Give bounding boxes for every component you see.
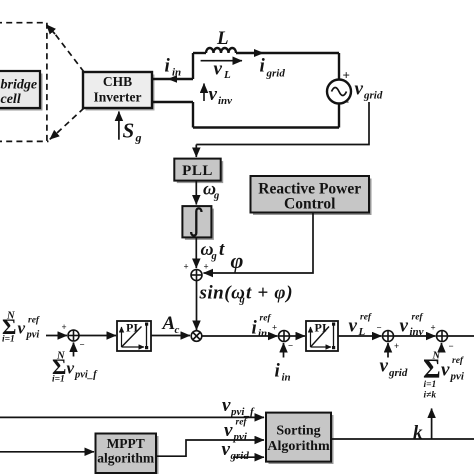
- svg-text:t: t: [219, 239, 225, 260]
- svg-text:i=1: i=1: [52, 375, 65, 385]
- svg-text:L: L: [216, 28, 229, 49]
- svg-text:pvi_f: pvi_f: [74, 370, 98, 381]
- svg-text:grid: grid: [363, 90, 383, 102]
- svg-text:PI: PI: [315, 321, 327, 335]
- svg-text:sin(ω: sin(ω: [199, 283, 246, 304]
- svg-text:ref: ref: [412, 313, 424, 323]
- svg-text:algorithm: algorithm: [97, 451, 155, 466]
- svg-text:inv: inv: [218, 95, 232, 107]
- svg-text:+: +: [343, 68, 350, 83]
- svg-text:Control: Control: [284, 196, 336, 213]
- svg-text:+: +: [431, 323, 436, 333]
- svg-text:v: v: [222, 439, 231, 460]
- svg-text:c: c: [175, 324, 180, 336]
- svg-text:i: i: [252, 318, 258, 339]
- svg-text:Σ: Σ: [423, 354, 441, 384]
- svg-text:PLL: PLL: [182, 163, 213, 179]
- svg-text:i=1: i=1: [2, 335, 15, 345]
- svg-text:g: g: [211, 251, 217, 262]
- svg-text:S: S: [123, 119, 135, 143]
- svg-text:pvi_f: pvi_f: [230, 406, 255, 418]
- svg-text:MPPT: MPPT: [107, 436, 145, 451]
- svg-text:L: L: [223, 69, 231, 81]
- svg-text:ref: ref: [28, 316, 40, 326]
- svg-text:ref: ref: [452, 356, 464, 366]
- svg-text:v: v: [67, 359, 75, 378]
- svg-text:in: in: [282, 372, 291, 384]
- svg-text:φ: φ: [231, 248, 244, 273]
- svg-text:in: in: [172, 67, 181, 79]
- svg-text:g: g: [213, 191, 219, 202]
- svg-text:ref: ref: [236, 418, 248, 428]
- svg-text:g: g: [135, 131, 142, 145]
- svg-text:ref: ref: [360, 313, 372, 323]
- svg-text:k: k: [413, 423, 423, 444]
- svg-text:v: v: [441, 360, 450, 381]
- svg-text:Sorting: Sorting: [276, 424, 320, 439]
- svg-text:v: v: [380, 356, 389, 377]
- svg-text:grid: grid: [266, 68, 286, 80]
- svg-text:i: i: [275, 361, 281, 382]
- svg-text:i: i: [165, 56, 171, 77]
- svg-text:grid: grid: [388, 367, 408, 379]
- svg-text:v: v: [209, 84, 218, 105]
- svg-text:in: in: [258, 328, 267, 340]
- svg-text:t + φ): t + φ): [246, 283, 293, 304]
- svg-text:pvi: pvi: [450, 371, 465, 383]
- svg-text:i=1: i=1: [424, 380, 437, 390]
- svg-text:−: −: [342, 95, 349, 110]
- svg-text:−: −: [288, 341, 293, 351]
- svg-text:cell: cell: [1, 92, 21, 107]
- svg-text:bridge: bridge: [1, 78, 38, 93]
- svg-text:CHB: CHB: [103, 74, 132, 89]
- svg-text:−: −: [377, 323, 382, 333]
- svg-text:g: g: [239, 295, 245, 306]
- svg-text:pvi: pvi: [26, 330, 40, 341]
- svg-text:i≠k: i≠k: [424, 391, 437, 401]
- svg-text:−: −: [449, 341, 454, 351]
- svg-text:A: A: [162, 313, 176, 334]
- svg-text:+: +: [394, 341, 399, 351]
- svg-text:v: v: [18, 319, 26, 338]
- svg-text:v: v: [224, 420, 233, 441]
- svg-text:v: v: [214, 59, 223, 80]
- svg-text:i: i: [260, 56, 266, 77]
- svg-text:Inverter: Inverter: [94, 90, 142, 105]
- svg-text:−: −: [80, 340, 85, 350]
- svg-text:v: v: [400, 316, 409, 337]
- svg-text:PI: PI: [126, 321, 138, 335]
- svg-text:grid: grid: [230, 450, 250, 462]
- svg-text:+: +: [204, 262, 209, 272]
- svg-text:v: v: [355, 79, 364, 100]
- svg-text:+: +: [62, 322, 67, 332]
- svg-text:v: v: [222, 395, 231, 416]
- svg-text:+: +: [272, 323, 277, 333]
- svg-text:Algorithm: Algorithm: [267, 439, 330, 454]
- svg-text:pvi: pvi: [233, 431, 248, 443]
- svg-text:+: +: [184, 262, 189, 272]
- svg-text:ref: ref: [260, 314, 272, 324]
- svg-text:v: v: [349, 316, 358, 337]
